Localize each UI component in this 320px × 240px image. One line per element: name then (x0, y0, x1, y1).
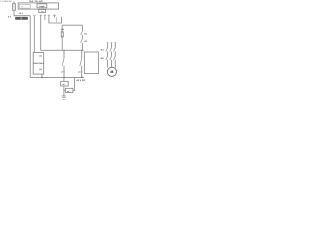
feedback right wire segments (81, 25, 83, 50)
phase wire 3 (114, 43, 116, 68)
ground (62, 96, 66, 99)
wire bus to PSU (63, 77, 65, 81)
svg-text:24 V DC: 24 V DC (76, 79, 85, 82)
terminal block dark label (15, 17, 28, 20)
relay U1 inner input box (19, 5, 30, 9)
wire stub terminal33 (44, 16, 46, 20)
PSU box F2 (61, 81, 68, 86)
wire A2 down (41, 74, 43, 77)
contactor box K1K2 (84, 52, 98, 74)
relay unit U1 outline (18, 3, 58, 9)
wire terminal13 to A1 (33, 16, 35, 52)
filter box Z1 (65, 88, 73, 92)
junction node bus-K2 (81, 50, 82, 51)
svg-text:0 V: 0 V (8, 16, 12, 19)
bus bottom 0V (30, 76, 84, 78)
svg-text:M: M (110, 70, 113, 74)
wire Z1 right riser (73, 78, 75, 91)
fuse F1 (13, 4, 16, 11)
PSR relay box (33, 53, 44, 75)
wire fuse to 0V rail (14, 10, 30, 15)
svg-text:14: 14 (61, 70, 63, 73)
svg-text:SA-76-A2: SA-76-A2 (29, 0, 43, 3)
fuse F1 top lead (13, 1, 15, 4)
reset button S2 (61, 32, 63, 37)
svg-text:A1: A1 (39, 55, 42, 58)
svg-text:sv: sv (67, 91, 69, 93)
logic block (37, 4, 47, 8)
wire terminal41 jog (49, 16, 62, 23)
svg-text:24 V: 24 V (19, 12, 24, 15)
phase wire 2 (111, 43, 113, 67)
contact K1 aux (81, 31, 83, 35)
junction node bus-K1 (63, 50, 64, 51)
contact slash out1 (62, 58, 64, 66)
contactor K1 main contacts (106, 48, 116, 52)
feedback loop top wire (62, 24, 82, 26)
svg-text:24: 24 (78, 70, 80, 73)
svg-text:K1: K1 (84, 32, 87, 35)
timer box below relay (39, 9, 46, 12)
phase wire 1 (107, 43, 109, 68)
phase mid ticks (107, 52, 116, 54)
terminal dash S2 (61, 28, 64, 30)
svg-text:-K1: -K1 (100, 49, 104, 52)
output contact 23-24 wire (81, 50, 83, 77)
contactor K2 main contacts (106, 56, 116, 60)
svg-text:-K2: -K2 (100, 57, 104, 60)
terminal ticks (34, 16, 54, 17)
contact K2 aux (81, 39, 83, 43)
feedback left wire lower (61, 37, 63, 50)
svg-text:PSR-PS21: PSR-PS21 (34, 62, 44, 65)
svg-text:1s: 1s (21, 5, 23, 8)
svg-text:A2: A2 (39, 68, 42, 71)
output contact 13-14 wire (63, 50, 65, 77)
svg-text:Logic: Logic (39, 5, 45, 8)
junction node out2 (81, 77, 82, 78)
junction node A2 (41, 77, 42, 78)
bus mid horizontal (41, 49, 84, 51)
contact slash out2 (80, 58, 82, 66)
svg-text:K2: K2 (84, 40, 87, 43)
phase line L1 ticks (107, 42, 109, 44)
wire terminal23 to bus (40, 16, 42, 50)
left rail 0V down (29, 16, 31, 78)
motor M1 (107, 67, 116, 76)
junction node out1 (63, 77, 64, 78)
wire riser mid (56, 17, 58, 23)
wire stub terminal52 (54, 15, 56, 18)
svg-text:dv: dv (62, 83, 64, 86)
svg-text:1 s: 1 s (41, 10, 44, 13)
svg-text:L1 230V AC: L1 230V AC (0, 0, 12, 3)
feedback left wire upper (61, 25, 63, 32)
wire PSU to ground (63, 86, 65, 96)
wire Z1 left stub (64, 89, 66, 91)
